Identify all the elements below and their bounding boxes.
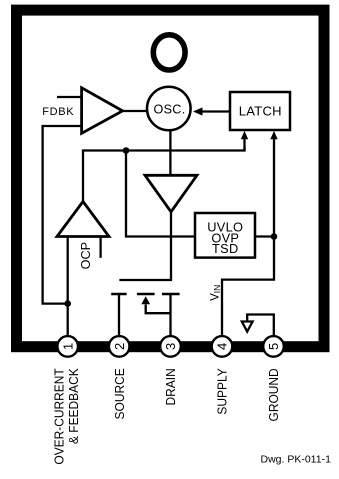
svg-text:Dwg. PK-011-1: Dwg. PK-011-1 bbox=[261, 453, 332, 465]
transistor MOSFET body arrow to drain bbox=[141, 296, 150, 304]
svg-text:1: 1 bbox=[60, 343, 75, 350]
svg-text:OSC.: OSC. bbox=[154, 102, 186, 116]
svg-text:FDBK: FDBK bbox=[42, 106, 74, 118]
UVLO OVP TSD box bbox=[195, 213, 255, 258]
node junction dot on main net bbox=[123, 147, 130, 154]
svg-text:GROUND: GROUND bbox=[267, 368, 282, 421]
wire: supply net up into LATCH with arrowhead bbox=[273, 137, 275, 237]
pin 5 bbox=[263, 336, 284, 357]
wire: main horizontal net with drop to OCP apex bbox=[83, 148, 245, 202]
wire: stub into feedback buffer top input bbox=[57, 96, 82, 98]
svg-text:LATCH: LATCH bbox=[239, 104, 282, 119]
pin 2 bbox=[109, 336, 130, 357]
wire: OCP left input down to pin 1 bbox=[67, 237, 69, 337]
wire: supply net down to pin 4 bbox=[222, 237, 274, 337]
svg-text:TSD: TSD bbox=[212, 241, 239, 256]
wire: LATCH to OSC with arrowhead bbox=[201, 110, 230, 112]
package dot marker bbox=[153, 35, 185, 70]
svg-text:VIN: VIN bbox=[209, 285, 222, 301]
svg-text:2: 2 bbox=[112, 343, 127, 350]
svg-text:& FEEDBACK: & FEEDBACK bbox=[67, 368, 82, 444]
package border frame bbox=[17, 10, 325, 347]
pin 3 bbox=[160, 336, 181, 357]
wire: MOSFET source down to pin 2 bbox=[118, 294, 120, 336]
wire: OSC output down to driver bbox=[169, 130, 171, 176]
transistor MOSFET drain bar bbox=[162, 293, 180, 296]
svg-text:SOURCE: SOURCE bbox=[112, 368, 127, 419]
latch box bbox=[230, 92, 290, 130]
svg-text:3: 3 bbox=[163, 343, 178, 350]
gate driver triangle bbox=[145, 175, 197, 212]
wire: FDBK input net down to over-current junction bbox=[43, 126, 82, 304]
oscillator OSC bbox=[147, 87, 191, 131]
pin 1 bbox=[57, 336, 78, 357]
wire: main net up into LATCH with arrowhead bbox=[243, 137, 245, 151]
transistor MOSFET body bar bbox=[137, 293, 155, 296]
svg-text:DRAIN: DRAIN bbox=[164, 368, 179, 405]
wire: junction down and right to UVLO block bbox=[126, 151, 195, 237]
transistor MOSFET source bar bbox=[111, 293, 126, 296]
op-amp feedback buffer bbox=[82, 88, 123, 134]
wire: OCP right input stub bbox=[99, 237, 101, 258]
svg-text:SUPPLY: SUPPLY bbox=[215, 368, 230, 415]
node junction dot over-current/feedback bbox=[64, 300, 71, 307]
svg-text:5: 5 bbox=[266, 343, 281, 350]
ground return hook with open arrow bbox=[247, 315, 274, 337]
wire: driver output to MOSFET gate plate bbox=[119, 212, 171, 280]
pin 4 bbox=[212, 336, 233, 357]
node junction dot on supply net bbox=[271, 233, 278, 240]
svg-text:OCP: OCP bbox=[79, 242, 93, 270]
wire: MOSFET drain down to pin 3 bbox=[169, 294, 171, 336]
svg-text:4: 4 bbox=[215, 343, 230, 350]
wire: UVLO right side to supply net bbox=[255, 235, 274, 237]
over-current comparator OCP bbox=[57, 202, 109, 237]
wire: buffer output to OSC bbox=[123, 110, 148, 112]
svg-text:OVER-CURRENT: OVER-CURRENT bbox=[52, 368, 67, 465]
